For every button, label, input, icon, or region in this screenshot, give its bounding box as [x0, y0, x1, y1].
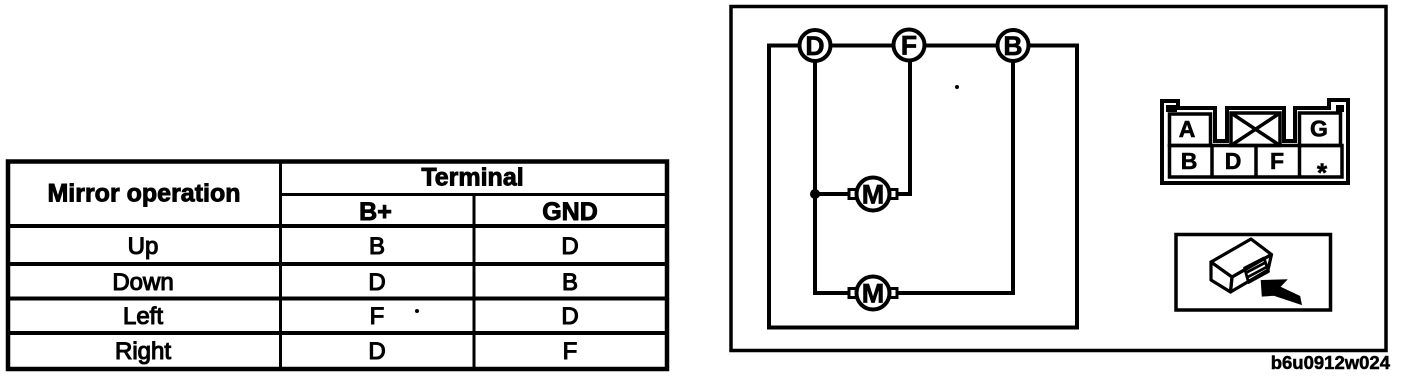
- svg-text:*: *: [1317, 158, 1328, 188]
- table row line under Up: [8, 262, 667, 266]
- connector crossed cell: [1231, 113, 1280, 146]
- M1 right terminal square: [889, 190, 897, 199]
- connector bottom row box: [1170, 146, 1343, 178]
- svg-text:D: D: [1225, 148, 1242, 174]
- svg-text:F: F: [1270, 148, 1284, 174]
- connector left key mark: [1166, 105, 1177, 112]
- table column divider 2: [473, 195, 476, 370]
- svg-text:Terminal: Terminal: [421, 164, 523, 192]
- relay pointer arrow: [1262, 280, 1302, 304]
- svg-text:G: G: [1310, 116, 1328, 142]
- wire outer right vertical: [1075, 44, 1079, 330]
- motor M1: [849, 178, 897, 211]
- circuit wires: [767, 44, 1079, 330]
- svg-text:B: B: [369, 233, 385, 260]
- wire junction to M1: [815, 192, 853, 196]
- wire top bus: [769, 44, 1077, 48]
- table row line under B+/GND: [8, 224, 667, 228]
- svg-text:Down: Down: [112, 269, 173, 296]
- svg-text:B: B: [1181, 148, 1198, 174]
- table column divider 1: [279, 162, 282, 370]
- schematic frame: [731, 7, 1386, 351]
- svg-text:D: D: [368, 269, 385, 296]
- wire outer bottom: [767, 326, 1079, 330]
- junction node dot: [810, 189, 820, 199]
- wire D down to M2 corner: [815, 46, 853, 294]
- relay 3d body: [1211, 239, 1272, 292]
- connector cell A: [1170, 114, 1211, 146]
- svg-text:b6u0912w024: b6u0912w024: [1271, 352, 1391, 373]
- relay top face: [1211, 239, 1272, 277]
- svg-text:B: B: [1003, 31, 1022, 61]
- svg-text:A: A: [1179, 116, 1196, 142]
- table header text: [47, 164, 597, 227]
- wire M2 right to B: [893, 46, 1013, 294]
- terminal circle F: [894, 30, 925, 61]
- svg-text:B+: B+: [359, 198, 392, 226]
- scan speck in Left row: [415, 309, 419, 313]
- svg-text:Up: Up: [128, 233, 159, 260]
- svg-text:M: M: [862, 180, 885, 210]
- svg-text:D: D: [368, 338, 385, 365]
- table: mirror operation terminal table: [8, 162, 667, 370]
- motor M2: [849, 277, 897, 310]
- svg-text:D: D: [805, 31, 824, 61]
- relay left face: [1211, 262, 1232, 292]
- table row line under Left: [8, 331, 667, 335]
- svg-text:F: F: [370, 303, 385, 330]
- svg-text:Left: Left: [123, 303, 163, 330]
- svg-text:M: M: [862, 279, 885, 309]
- connector right key mark: [1336, 105, 1344, 112]
- wire M1 right to F: [893, 46, 910, 195]
- connector pinout outline: [1162, 100, 1348, 183]
- relay connector slot: [1245, 258, 1269, 283]
- M1 left terminal square: [849, 190, 857, 199]
- terminal circle D: [800, 30, 831, 61]
- scan speck near top bus: [955, 85, 959, 89]
- svg-text:Right: Right: [115, 338, 171, 365]
- svg-text:D: D: [561, 303, 578, 330]
- table body text: [112, 233, 578, 365]
- wire outer left vertical: [767, 44, 771, 330]
- M2 right terminal square: [889, 289, 897, 298]
- relay right face: [1231, 255, 1272, 293]
- svg-text:D: D: [561, 233, 578, 260]
- table row line under Down: [8, 297, 667, 301]
- M2 left terminal square: [849, 289, 857, 298]
- svg-text:Mirror operation: Mirror operation: [47, 180, 240, 208]
- terminal circle B: [998, 30, 1029, 61]
- svg-text:F: F: [901, 31, 917, 61]
- svg-text:F: F: [563, 338, 578, 365]
- svg-text:GND: GND: [542, 198, 598, 226]
- connector cell G: [1300, 113, 1341, 146]
- relay icon box: [1176, 235, 1331, 311]
- table outer border: [8, 162, 667, 370]
- svg-text:B: B: [562, 269, 578, 296]
- connector pin letters: [1179, 116, 1328, 188]
- table row line under Terminal: [281, 193, 668, 196]
